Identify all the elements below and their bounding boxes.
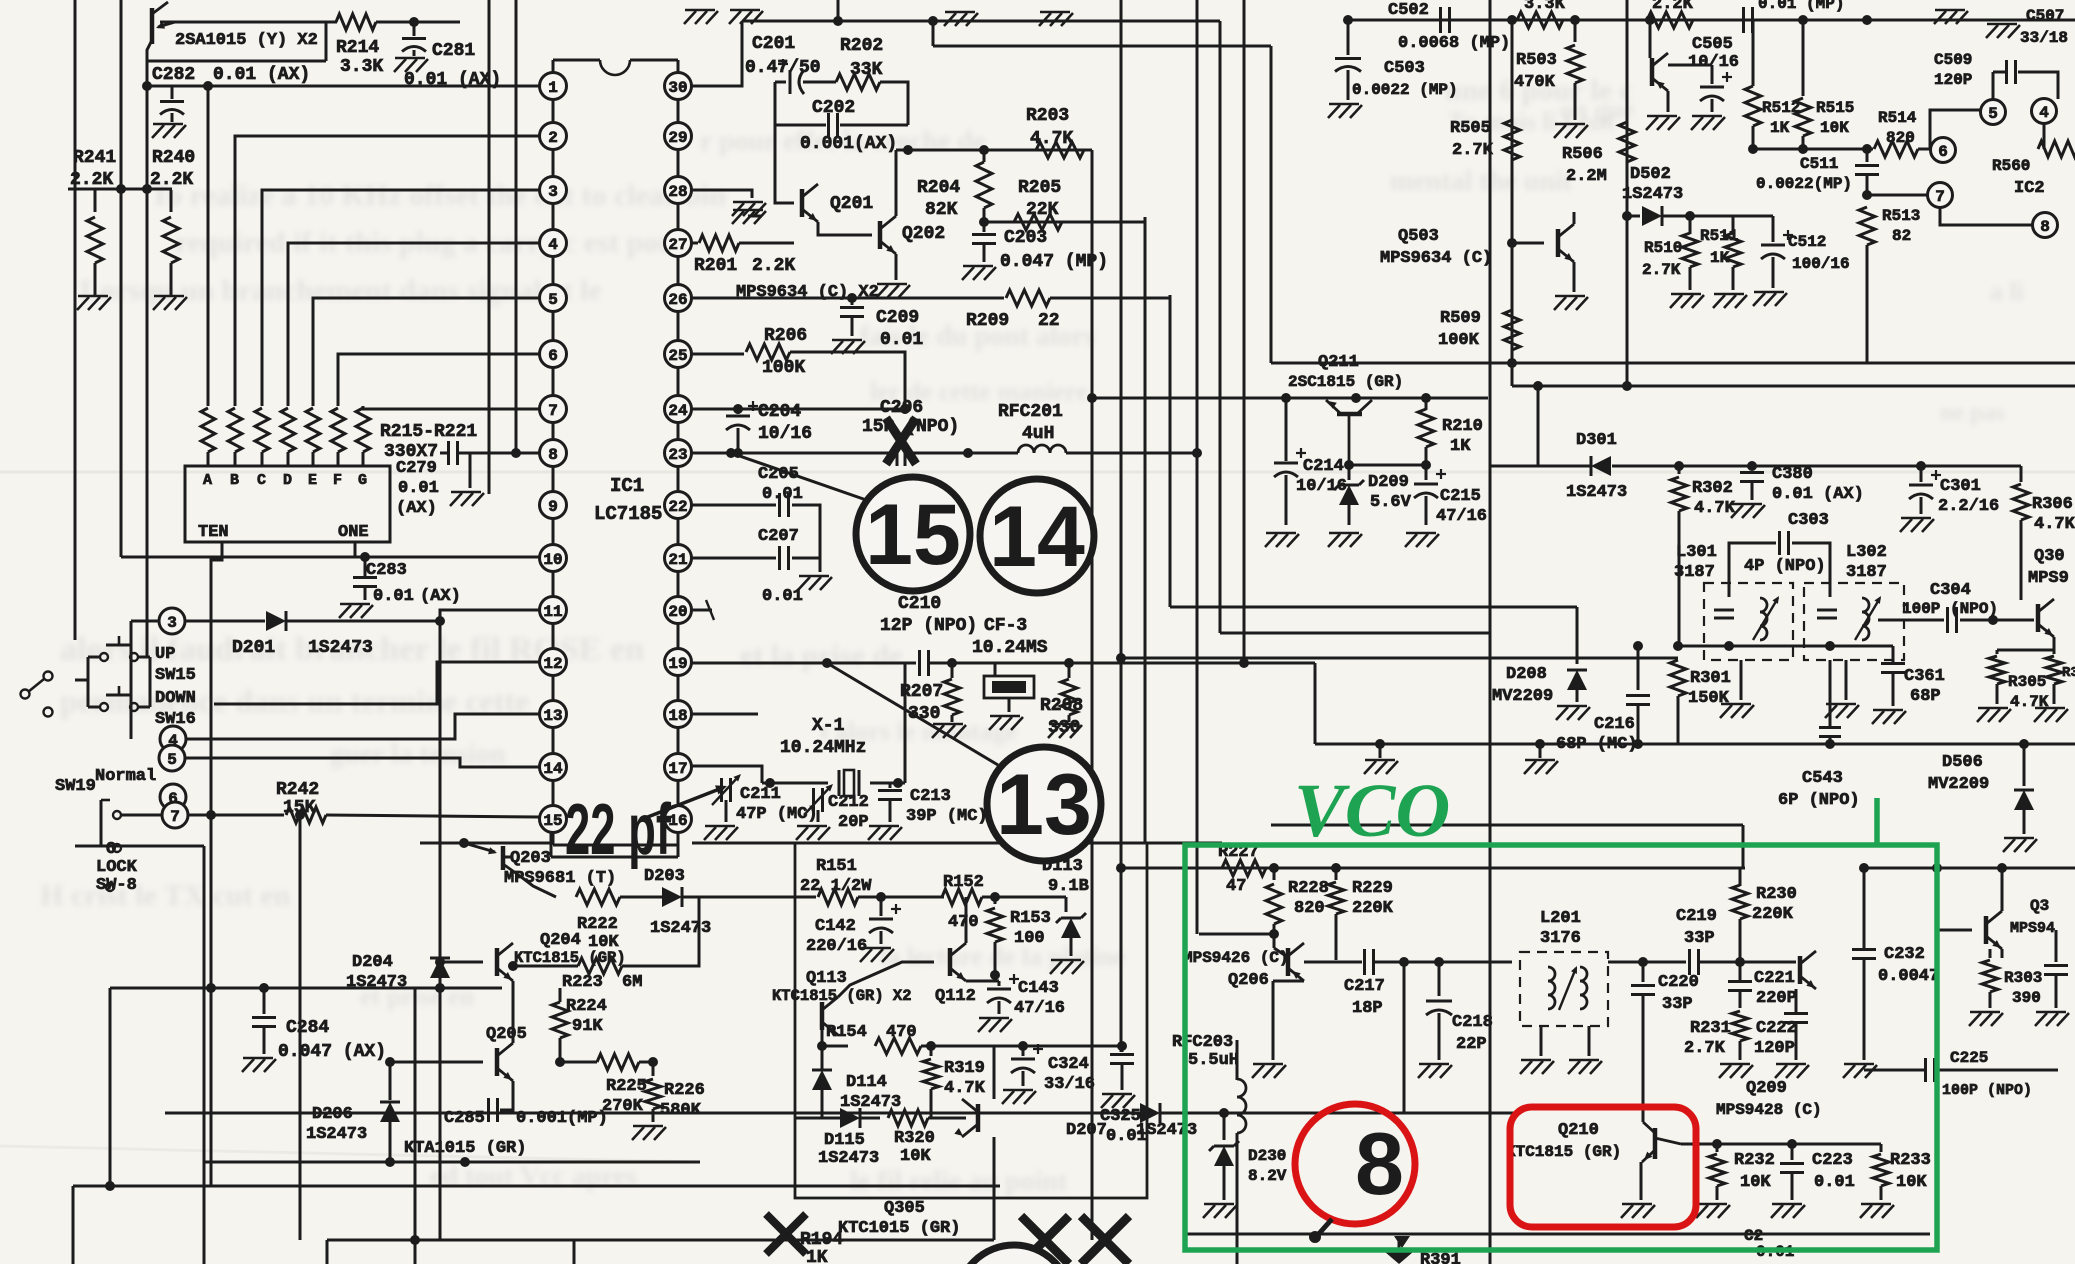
wire x1404 down xyxy=(1403,962,1406,1113)
svg-text:10: 10 xyxy=(543,551,562,569)
svg-text:Q205: Q205 xyxy=(486,1025,527,1044)
wire Q206 collector row xyxy=(1304,960,1362,962)
svg-text:C281: C281 xyxy=(432,41,475,61)
capacitor C503 0.0022 (MP) xyxy=(1335,15,1458,100)
svg-text:10K: 10K xyxy=(1896,1173,1927,1192)
node circle 5 xyxy=(159,745,185,771)
svg-text:C142: C142 xyxy=(815,917,856,936)
ceramic filter CF-3 10.24MS xyxy=(984,663,1034,712)
wire y1186 row xyxy=(73,1181,1000,1191)
IC1 pin 7 xyxy=(540,396,567,423)
svg-text:R215-R221: R215-R221 xyxy=(380,422,477,442)
svg-text:R301: R301 xyxy=(1690,669,1731,688)
capacitor C543 6P (NPO) xyxy=(1778,660,1860,810)
resistor R514 820 xyxy=(1874,109,1930,157)
svg-text:R214: R214 xyxy=(336,38,379,58)
wire y868 row xyxy=(1121,867,1336,870)
IC1 pin 16 xyxy=(665,806,692,833)
svg-text:0.01: 0.01 xyxy=(880,330,923,350)
svg-text:R503: R503 xyxy=(1516,51,1557,70)
wire VCO inner bottom y1234 xyxy=(1185,1233,1930,1236)
big circle 15 xyxy=(856,477,970,591)
svg-text:R205: R205 xyxy=(1018,178,1061,198)
VCO green label xyxy=(1294,769,1450,853)
svg-text:DOWN: DOWN xyxy=(155,689,196,708)
wire y21 rail xyxy=(742,16,1220,26)
svg-text:C: C xyxy=(257,472,266,489)
svg-text:68P: 68P xyxy=(1910,687,1941,706)
wire x1315 link xyxy=(1314,663,1317,744)
resistor R301 150K xyxy=(1670,660,1731,744)
IC1 body outline xyxy=(553,60,678,845)
label resistor array R215-R221 330X7 xyxy=(380,422,477,462)
wire Q210 emitter gnd xyxy=(1621,1162,1655,1218)
svg-text:C301: C301 xyxy=(1940,477,1981,496)
capacitor C214 10/16 electrolytic xyxy=(1274,398,1347,525)
ground below C3yy xyxy=(2035,1012,2069,1026)
IC1 pin 17 xyxy=(665,754,692,781)
wire pin1 row xyxy=(142,81,539,657)
node circle 3 xyxy=(159,608,185,634)
wire C212 stub xyxy=(817,783,819,790)
svg-text:120P: 120P xyxy=(1934,71,1972,89)
VCO green stray mark xyxy=(1874,798,1880,845)
svg-text:2SC1815 (GR): 2SC1815 (GR) xyxy=(1288,373,1403,391)
red box around Q210 xyxy=(1510,1107,1696,1227)
ground top right a xyxy=(1934,10,1968,24)
wire vertical x489 xyxy=(488,0,491,494)
svg-text:ne pas: ne pas xyxy=(1940,400,2005,426)
resistor R229 220K xyxy=(1328,868,1394,960)
svg-text:2.2M: 2.2M xyxy=(1566,167,1607,186)
resistor R225 270K xyxy=(513,1054,653,1116)
svg-text:0.0022 (MP): 0.0022 (MP) xyxy=(1352,81,1458,99)
svg-text:D: D xyxy=(283,472,292,489)
svg-text:R303: R303 xyxy=(2004,969,2042,987)
svg-text:C502: C502 xyxy=(1388,1,1429,20)
svg-text:18: 18 xyxy=(668,707,687,725)
wire y744 row xyxy=(1315,739,2075,749)
svg-text:6: 6 xyxy=(548,347,558,365)
svg-text:R204: R204 xyxy=(917,178,960,198)
wire R227 row y868 into box xyxy=(1185,867,1222,870)
ground below D113 xyxy=(1050,960,1084,974)
svg-text:68P (MC): 68P (MC) xyxy=(1556,735,1638,754)
capacitor C283 0.01 (AX) xyxy=(353,557,461,606)
svg-text:220K: 220K xyxy=(1352,899,1394,918)
X marks bottom middle xyxy=(1021,1216,1129,1264)
resistor R216 (array 330x7) xyxy=(228,408,242,466)
resistor R206 100K xyxy=(692,326,910,414)
svg-text:8: 8 xyxy=(1355,1114,1404,1213)
svg-text:C213: C213 xyxy=(910,787,951,806)
svg-text:26: 26 xyxy=(668,291,687,309)
transistor Q202 MPS9634 xyxy=(880,216,945,254)
svg-text:Q112: Q112 xyxy=(935,987,976,1006)
wire Q204-Q205 chain xyxy=(512,981,515,1043)
IC1 pin 8 xyxy=(540,440,567,467)
diode D502 1S2473 xyxy=(1622,165,1773,226)
wire Q204 base xyxy=(435,957,483,967)
junction Q203 emitter on y843 xyxy=(459,838,469,848)
svg-text:R391: R391 xyxy=(1420,1251,1461,1264)
svg-text:20P: 20P xyxy=(838,813,869,832)
resistor R210 1K xyxy=(1418,398,1483,465)
transistor Q112 xyxy=(935,943,976,1006)
wire y1113 row xyxy=(165,1112,1140,1115)
ground below R307 xyxy=(2034,708,2068,722)
svg-text:C219: C219 xyxy=(1676,907,1717,926)
IC2 pin 8 xyxy=(2033,213,2058,238)
ground below C205/C207 xyxy=(798,558,832,590)
svg-text:G: G xyxy=(358,472,367,489)
wire top-left to R214 xyxy=(160,21,337,24)
svg-text:10/16: 10/16 xyxy=(1688,53,1739,72)
wire IC1 pin7 fanout xyxy=(363,406,539,409)
red circle 8 xyxy=(1295,1104,1415,1243)
varactor D506 MV2209 xyxy=(1928,744,2034,834)
svg-text:a li: a li xyxy=(1990,277,2024,306)
ground below C380 xyxy=(1731,504,1765,518)
resistor R217 (array 330x7) xyxy=(255,408,269,466)
transistor Q503 MPS9634 (C) xyxy=(1380,224,1574,268)
resistor R209 22 xyxy=(966,290,1170,331)
svg-text:R210: R210 xyxy=(1442,417,1483,436)
svg-text:13: 13 xyxy=(996,757,1092,853)
svg-text:R305: R305 xyxy=(2008,673,2046,691)
resistor R224 91K xyxy=(552,988,607,1062)
ground below R241 xyxy=(77,296,111,310)
svg-text:100K: 100K xyxy=(762,358,805,378)
wire Q203 pins loop xyxy=(503,832,678,857)
pointer line from RFC to circle 14b xyxy=(968,453,1010,488)
svg-text:3.3K: 3.3K xyxy=(1524,0,1566,14)
capacitor C301 2.2/16 electrolytic xyxy=(1909,466,1999,516)
svg-text:15: 15 xyxy=(865,487,961,583)
ground below R208 xyxy=(1048,724,1082,738)
svg-text:120P: 120P xyxy=(1754,1039,1795,1058)
wire Q204 collector to R222 row xyxy=(512,897,514,943)
svg-text:29: 29 xyxy=(668,129,687,147)
svg-text:8.2V: 8.2V xyxy=(1248,1167,1287,1185)
svg-text:C361: C361 xyxy=(1904,667,1945,686)
svg-text:C216: C216 xyxy=(1594,715,1635,734)
svg-text:SW19: SW19 xyxy=(55,777,96,796)
svg-text:C283: C283 xyxy=(366,561,407,580)
svg-text:F: F xyxy=(333,472,342,489)
svg-text:4.7K: 4.7K xyxy=(1694,499,1736,518)
svg-text:220P: 220P xyxy=(1756,989,1797,1008)
svg-text:C509: C509 xyxy=(1934,51,1972,69)
svg-text:RFC201: RFC201 xyxy=(998,402,1063,422)
wire y658 row xyxy=(1121,646,1678,658)
wire y843 visible xyxy=(692,842,1222,845)
svg-text:9: 9 xyxy=(548,498,558,516)
svg-text:820: 820 xyxy=(1886,129,1915,147)
svg-text:5.6V: 5.6V xyxy=(1370,493,1412,512)
svg-text:Q305: Q305 xyxy=(884,1199,925,1218)
svg-text:C512: C512 xyxy=(1788,233,1826,251)
wire box top right xyxy=(1066,896,1090,898)
svg-text:MPS9428 (C): MPS9428 (C) xyxy=(1716,1101,1822,1119)
svg-text:1K: 1K xyxy=(1710,249,1730,267)
svg-text:L301: L301 xyxy=(1676,543,1717,562)
svg-text:1S2473: 1S2473 xyxy=(1566,483,1627,502)
svg-text:220/16: 220/16 xyxy=(806,937,867,956)
svg-text:C202: C202 xyxy=(812,98,855,118)
inductor L201 tuned xyxy=(1512,962,1587,1010)
ground below C211 xyxy=(704,826,738,840)
svg-text:0.01: 0.01 xyxy=(398,479,439,498)
IC1 pin 11 xyxy=(540,597,567,624)
svg-text:D203: D203 xyxy=(644,867,685,886)
wire x73 bottom xyxy=(72,1186,75,1264)
box right edge x1147 lower xyxy=(1146,843,1148,1198)
svg-text:9.1B: 9.1B xyxy=(1048,877,1089,896)
wire x110 down xyxy=(109,988,112,1186)
transistor Q113 KTC1815 xyxy=(772,969,912,1035)
capacitor C203 0.047 (MP) xyxy=(972,222,1108,272)
svg-text:3187: 3187 xyxy=(1674,563,1715,582)
svg-text:1: 1 xyxy=(548,79,558,97)
resistor R231 2.7K xyxy=(1684,1002,1748,1060)
svg-text:D114: D114 xyxy=(846,1073,887,1092)
wire y633 row xyxy=(1220,632,1490,635)
resistor R202 33K xyxy=(832,36,908,90)
svg-text:C217: C217 xyxy=(1344,977,1385,996)
IC1 pin 21 xyxy=(665,545,692,572)
svg-text:47/16: 47/16 xyxy=(1436,507,1487,526)
IC1 pin 9 xyxy=(540,492,567,519)
svg-text:330: 330 xyxy=(908,704,940,724)
svg-text:7: 7 xyxy=(170,808,180,826)
transistor Q204 KTC1815 (GR) xyxy=(497,931,626,981)
wire pin28 to ground xyxy=(692,190,766,216)
svg-text:R202: R202 xyxy=(840,36,883,56)
wire y195 to pin7 xyxy=(1862,190,1927,200)
svg-text:R319: R319 xyxy=(944,1059,985,1078)
svg-text:20: 20 xyxy=(668,603,687,621)
wire pin7 to pin8 xyxy=(1940,208,2032,225)
svg-text:22: 22 xyxy=(1038,311,1060,331)
resistor R515 10K xyxy=(1795,20,1854,149)
svg-text:470: 470 xyxy=(948,913,979,932)
wire IC1 pin4 fanout xyxy=(288,243,539,406)
svg-text:2.2K: 2.2K xyxy=(70,170,113,190)
svg-text:D506: D506 xyxy=(1942,753,1983,772)
svg-text:C220: C220 xyxy=(1658,973,1699,992)
svg-text:18P: 18P xyxy=(1352,999,1383,1018)
svg-text:C505: C505 xyxy=(1692,35,1733,54)
svg-text:Q203: Q203 xyxy=(510,849,551,868)
svg-text:2.2/16: 2.2/16 xyxy=(1938,497,1999,516)
label L301 3187 xyxy=(1674,543,1717,582)
svg-text:5.5uH: 5.5uH xyxy=(1188,1051,1239,1070)
svg-text:100P (NPO): 100P (NPO) xyxy=(1902,600,1998,618)
svg-text:0.0022(MP): 0.0022(MP) xyxy=(1756,175,1852,193)
capacitor C505 10/16 electrolytic xyxy=(1668,35,1739,112)
bus wire x1244 xyxy=(1243,0,1246,663)
diode D206 1S2473 xyxy=(306,1062,400,1162)
capacitor C279 0.01 (AX) xyxy=(396,441,540,518)
svg-text:C503: C503 xyxy=(1384,59,1425,78)
label KTA1015 (GR) xyxy=(404,1139,526,1158)
IC1 pin 22 xyxy=(665,492,692,519)
svg-text:580K: 580K xyxy=(660,1101,702,1120)
svg-text:Lorsqu un branchement dans sig: Lorsqu un branchement dans signal et le xyxy=(80,274,602,307)
svg-text:82: 82 xyxy=(1892,227,1911,245)
ground below C218 xyxy=(1418,1064,1452,1078)
svg-text:R228: R228 xyxy=(1288,879,1329,898)
svg-text:LOCK: LOCK xyxy=(96,858,138,877)
wire Q202 collector up xyxy=(895,150,898,216)
resistor R510 2.7K xyxy=(1642,211,1698,290)
ground below R231 xyxy=(1719,1064,1753,1078)
capacitor C284 0.047 (AX) xyxy=(252,988,386,1062)
ground below D230 xyxy=(1203,1204,1237,1218)
resistor R203 4.7K xyxy=(1026,106,1084,158)
IC1 pin 10 xyxy=(540,545,567,572)
svg-text:22: 22 xyxy=(668,498,687,516)
wire R214 to C281 node xyxy=(376,17,460,27)
wire L201 row to C219 xyxy=(1608,957,1686,967)
svg-text:33P: 33P xyxy=(1684,929,1715,948)
wire crystal to pin17 link xyxy=(740,766,762,783)
label CF-3 xyxy=(984,616,1027,636)
svg-text:8: 8 xyxy=(548,446,558,464)
transistor Q303 xyxy=(2028,547,2069,637)
ground below C142 xyxy=(860,948,894,962)
IC1 pin 25 xyxy=(665,341,692,368)
wire pin20 stub xyxy=(692,600,714,620)
bottom edge arrow R391 xyxy=(1385,1236,1461,1264)
IC1 pin 23 xyxy=(665,440,692,467)
wire x1538 link xyxy=(1533,381,1543,466)
svg-text:H crist le TX cut en: H crist le TX cut en xyxy=(40,879,291,912)
svg-text:13: 13 xyxy=(543,707,562,725)
capacitor C209 0.01 xyxy=(840,298,923,350)
svg-text:0.01 (MP): 0.01 (MP) xyxy=(1758,0,1844,13)
ground below C222 xyxy=(1775,1064,1809,1078)
label L201 3176 xyxy=(1540,909,1581,948)
svg-text:82K: 82K xyxy=(925,200,958,220)
svg-text:R3: R3 xyxy=(2062,665,2075,681)
label C303 4P (NPO) xyxy=(1744,511,1829,576)
svg-text:100: 100 xyxy=(1014,929,1045,948)
wire Q505 collector to C505 xyxy=(1668,65,1712,84)
resistor R320 10K xyxy=(888,1110,966,1166)
wire vertical x516 xyxy=(511,0,521,458)
transistor Q201 MPS9634 xyxy=(802,184,873,222)
svg-text:C2: C2 xyxy=(1744,1227,1763,1245)
capacitor C502 0.0068 (MP) xyxy=(1388,1,1510,53)
wire Q113 emitter to R154 row xyxy=(822,1030,848,1046)
svg-text:C543: C543 xyxy=(1802,769,1843,788)
svg-text:91K: 91K xyxy=(572,1017,603,1036)
resistor R509 100K xyxy=(1438,309,1520,350)
X mark R194 xyxy=(766,1214,806,1254)
svg-text:CF-3: CF-3 xyxy=(984,616,1027,636)
svg-text:4P (NPO): 4P (NPO) xyxy=(1744,557,1826,576)
svg-text:R513: R513 xyxy=(1882,207,1920,225)
wire x415 bottom xyxy=(414,988,417,1264)
svg-text:SW15: SW15 xyxy=(155,666,196,685)
wire crystal right to x905 xyxy=(904,663,907,783)
svg-text:C324: C324 xyxy=(1048,1055,1089,1074)
wire Q201 to Q202 xyxy=(818,222,872,235)
trimmer capacitor C212 20P xyxy=(804,778,869,832)
wire Q503 base xyxy=(1507,238,1544,248)
svg-text:47: 47 xyxy=(1226,877,1246,896)
IC1 pin 24 xyxy=(665,396,692,423)
ground below C209 xyxy=(831,340,865,354)
capacitor C361 68P xyxy=(1881,646,1945,706)
svg-text:28: 28 xyxy=(668,183,687,201)
svg-text:14: 14 xyxy=(543,760,563,778)
svg-text:0.0047: 0.0047 xyxy=(1878,967,1939,986)
resistor R503 470K xyxy=(1514,20,1583,120)
svg-text:R230: R230 xyxy=(1756,885,1797,904)
svg-text:C223: C223 xyxy=(1812,1151,1853,1170)
svg-text:22P: 22P xyxy=(1456,1035,1487,1054)
label IC2 xyxy=(2014,179,2045,198)
transistor Q211 2SC1815 (GR) xyxy=(1288,353,1403,465)
resistor R511 1K xyxy=(1700,216,1741,290)
resistor R221 (array 330x7) xyxy=(356,408,370,466)
svg-text:MV2209: MV2209 xyxy=(1928,775,1989,794)
wire IC1 pin6 fanout xyxy=(338,354,539,406)
svg-text:C303: C303 xyxy=(1788,511,1829,530)
svg-text:R231: R231 xyxy=(1690,1019,1731,1038)
svg-text:2: 2 xyxy=(548,129,558,147)
wire pin17 row xyxy=(692,765,740,768)
capacitor C222 120P xyxy=(1754,989,1808,1060)
svg-text:(AX): (AX) xyxy=(396,499,437,518)
label Normal xyxy=(95,767,156,786)
IC1 pin 20 xyxy=(665,597,692,624)
svg-text:R224: R224 xyxy=(566,997,607,1016)
svg-text:1S2473: 1S2473 xyxy=(308,638,373,658)
svg-text:1S2473: 1S2473 xyxy=(306,1125,367,1144)
svg-text:C380: C380 xyxy=(1772,465,1813,484)
svg-text:Q30: Q30 xyxy=(2034,547,2065,566)
wire y843 long xyxy=(420,842,553,845)
svg-text:mental the unit: mental the unit xyxy=(1390,166,1573,197)
svg-text:0.01: 0.01 xyxy=(373,587,414,606)
inductor L302 tuned xyxy=(1817,596,1881,640)
wire y150 rail xyxy=(896,145,1092,155)
wire Q113 base from Q112 xyxy=(838,962,932,1003)
diode D301 1S2473 xyxy=(1490,386,2021,502)
svg-text:30: 30 xyxy=(668,79,687,97)
svg-text:D301: D301 xyxy=(1576,431,1617,450)
wire y1240 row xyxy=(327,1235,994,1245)
capacitor C232 0.0047 xyxy=(1852,863,1939,1060)
IC1 pin 14 xyxy=(540,754,567,781)
svg-text:10.24MHz: 10.24MHz xyxy=(780,738,866,758)
svg-text:15: 15 xyxy=(543,812,562,830)
svg-text:O: O xyxy=(106,840,116,859)
VCO green box xyxy=(1185,845,1937,1250)
wire pin19 row xyxy=(692,658,916,668)
label L302 3187 xyxy=(1846,543,1887,582)
svg-text:C211: C211 xyxy=(740,785,781,804)
svg-text:D201: D201 xyxy=(232,638,275,658)
transistor Q205 xyxy=(486,1025,527,1081)
IC1 pin 12 xyxy=(540,649,567,676)
resistor R319 4.7K xyxy=(923,1046,986,1118)
svg-text:C218: C218 xyxy=(1452,1013,1493,1032)
